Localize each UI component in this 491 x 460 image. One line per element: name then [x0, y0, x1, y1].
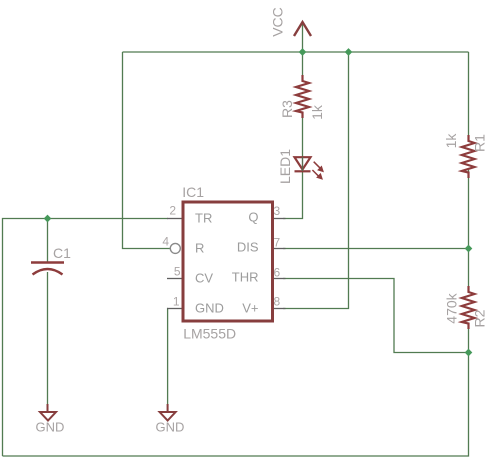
- led LED1 emission arrows: [312, 162, 322, 179]
- wire through LED1: [302, 157, 304, 171]
- wire VCC rail left drop to pin 4 (R): [123, 52, 171, 249]
- svg-text:CV: CV: [195, 271, 213, 286]
- svg-text:470k: 470k: [444, 292, 460, 323]
- capacitor C1: [31, 263, 64, 275]
- svg-text:VCC: VCC: [270, 7, 286, 37]
- ground GND2: [160, 404, 176, 421]
- supply VCC symbol: [294, 22, 311, 36]
- op-amp/IC IC1 LM555D body: [183, 202, 273, 321]
- svg-text:2: 2: [169, 204, 176, 218]
- pin 6 THR stub: [274, 278, 286, 280]
- svg-text:LED1: LED1: [277, 149, 293, 184]
- svg-text:GND: GND: [156, 420, 185, 435]
- svg-text:8: 8: [274, 295, 281, 309]
- wire right rail VCC to R1 top: [468, 52, 470, 139]
- wire VCC to R3 top: [302, 24, 304, 82]
- svg-text:R1: R1: [472, 134, 488, 152]
- svg-text:1k: 1k: [443, 133, 459, 149]
- svg-text:4: 4: [162, 235, 169, 249]
- pin 3 Q stub: [274, 218, 286, 220]
- svg-text:7: 7: [274, 236, 281, 250]
- pin 4 R inversion bubble: [170, 243, 180, 253]
- wire C1 bottom to GND: [47, 272, 49, 411]
- pin 2 TR stub: [167, 218, 182, 220]
- junction TR/C1: [44, 215, 52, 223]
- wire TR node down to C1 top: [47, 219, 49, 262]
- resistor R3: [296, 75, 309, 118]
- svg-text:V+: V+: [242, 301, 258, 316]
- svg-text:LM555D: LM555D: [183, 326, 236, 342]
- pin 5 CV stub: [167, 278, 182, 280]
- junction R1/R2/DIS: [465, 245, 473, 253]
- wire VCC rail to pin 8 (V+): [283, 52, 349, 309]
- pin 8 V+ stub: [274, 308, 286, 310]
- wire R2 bottom to THR node: [468, 323, 470, 353]
- svg-text:IC1: IC1: [182, 184, 204, 200]
- junction VCC/R3: [299, 48, 307, 56]
- wire THR node down right rail to bottom rail: [3, 353, 469, 457]
- svg-text:R: R: [195, 241, 204, 256]
- led LED1: [295, 157, 311, 171]
- svg-text:1: 1: [173, 295, 180, 309]
- resistor R2: [462, 286, 475, 329]
- wire R1 bottom to DIS node: [468, 170, 470, 249]
- svg-text:TR: TR: [195, 211, 212, 226]
- wire pin 1 (GND) down to GND symbol: [167, 309, 169, 412]
- wire pin 6 (THR) to R2 bottom node: [283, 279, 469, 353]
- wire pin 7 (DIS) to right rail: [283, 248, 469, 250]
- svg-text:R3: R3: [279, 100, 295, 118]
- svg-text:DIS: DIS: [237, 240, 259, 255]
- resistor R1: [462, 135, 475, 178]
- svg-text:1k: 1k: [309, 104, 325, 120]
- wire R3 bottom to LED1 anode: [302, 112, 304, 158]
- svg-text:Q: Q: [248, 210, 258, 225]
- wire bottom rail up left rail to pin 2 (TR): [3, 219, 169, 457]
- pin 1 GND stub: [167, 308, 182, 310]
- svg-text:3: 3: [274, 204, 281, 218]
- junction VCC/V+: [345, 48, 353, 56]
- svg-text:6: 6: [274, 266, 281, 280]
- wire LED1 cathode to pin 3 (Q): [283, 171, 303, 219]
- wire DIS node to R2 top: [468, 249, 470, 293]
- svg-text:5: 5: [174, 265, 181, 279]
- svg-text:R2: R2: [472, 309, 488, 327]
- ground GND1: [40, 404, 56, 421]
- pin 7 DIS stub: [274, 248, 286, 250]
- svg-text:GND: GND: [195, 301, 224, 316]
- junction R2/THR: [465, 349, 473, 357]
- svg-text:THR: THR: [232, 270, 259, 285]
- svg-text:GND: GND: [36, 420, 65, 435]
- svg-text:C1: C1: [53, 245, 71, 261]
- net VCC top rail wire: [123, 51, 469, 53]
